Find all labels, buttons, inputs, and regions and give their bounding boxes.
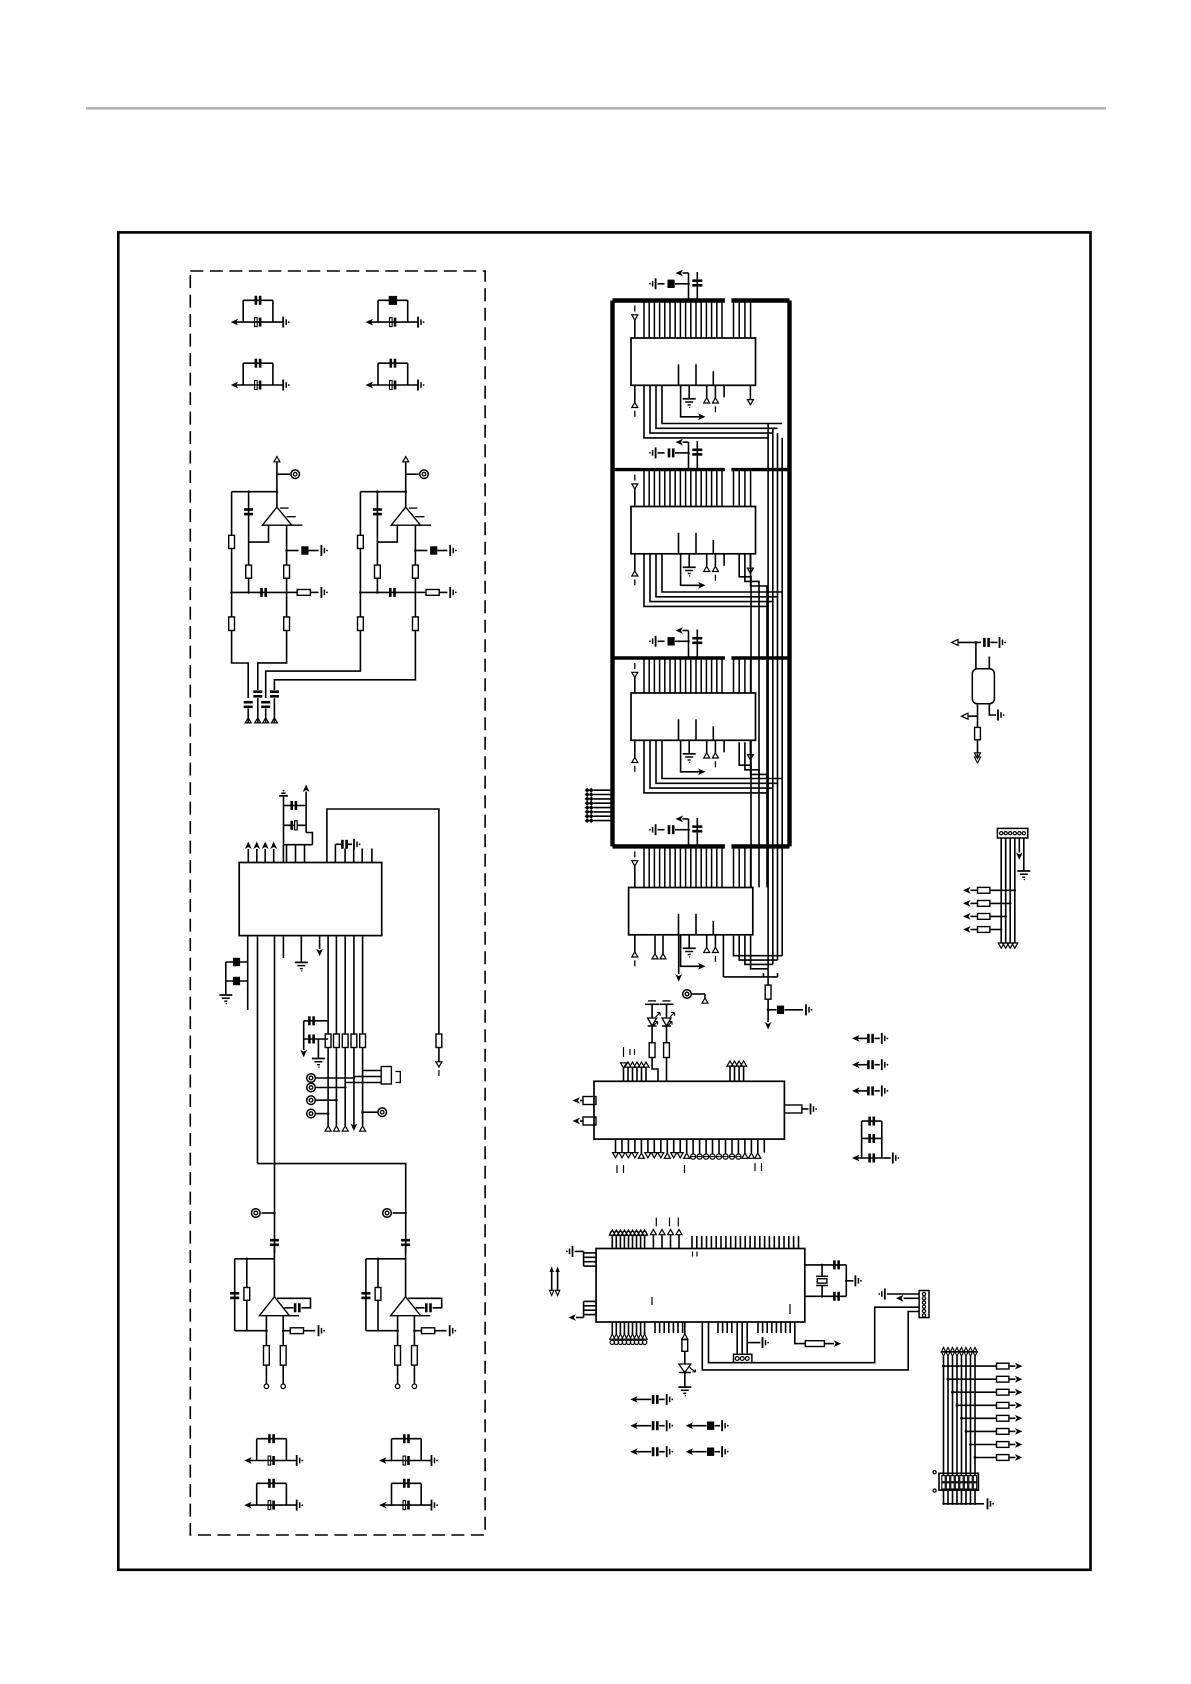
LED D3 bbox=[679, 1364, 691, 1373]
capacitor pair C47/C48 bbox=[379, 1502, 387, 1509]
resistor R2b bbox=[375, 565, 381, 578]
feedback wire bbox=[377, 525, 397, 542]
capacitor C21 bbox=[244, 701, 253, 704]
ESD diodes D1 D2 bbox=[645, 1003, 659, 1005]
U30 top pin group A bbox=[611, 1237, 613, 1249]
stub dashes bbox=[623, 1047, 625, 1057]
bus B stairs between blocks bbox=[739, 554, 751, 778]
DIP bus bbox=[941, 1347, 945, 1352]
resistor R4a bbox=[246, 1259, 248, 1331]
capacitor pair C41/C42 bbox=[244, 1457, 252, 1464]
SDRAM U14 bbox=[629, 888, 753, 935]
op-amp U1 bbox=[262, 507, 291, 525]
wire top rail bbox=[360, 491, 405, 493]
resistor R31 bbox=[682, 1340, 688, 1352]
data bus stair bbox=[644, 740, 768, 793]
resistor R9 bbox=[436, 1034, 442, 1048]
clk out wire bbox=[681, 554, 701, 586]
J4 wires bbox=[1000, 838, 1002, 943]
bias rail with capacitor bbox=[360, 591, 415, 593]
address/data pins bbox=[643, 301, 645, 339]
resistor bbox=[651, 1026, 653, 1043]
resistor R5a bbox=[377, 1259, 379, 1331]
U30 serial bus to J3 bbox=[709, 1307, 920, 1363]
U3 pin stub bbox=[282, 845, 284, 863]
feedback wire bbox=[249, 525, 269, 542]
capacitor pair C1/C2 with ferrite bbox=[231, 319, 239, 326]
wire op-amp outputs to bypass caps bbox=[232, 631, 249, 699]
decoupling network bbox=[655, 447, 657, 458]
data bus stair bbox=[644, 554, 768, 607]
pin1 marks bbox=[678, 914, 680, 935]
capacitor C24 bbox=[270, 690, 279, 693]
U30 left bus stubs 2 bbox=[583, 1301, 585, 1317]
inverted ground bbox=[283, 790, 285, 792]
ground stub wire bbox=[678, 936, 680, 974]
nets bbox=[706, 935, 708, 948]
U30 bottom pin group A bbox=[611, 1322, 613, 1334]
pin1 marks bbox=[678, 364, 680, 385]
op-amp U2 bbox=[391, 507, 420, 525]
ground bbox=[678, 1386, 691, 1388]
capacitor pair C45/C46 bbox=[244, 1502, 252, 1509]
test point TP9 bbox=[393, 1212, 406, 1214]
shielded DRAM bank box bbox=[613, 298, 725, 302]
connector J4 bbox=[997, 828, 1027, 838]
resistor R1d to ground bbox=[287, 591, 298, 593]
feedback capacitor C38 bbox=[277, 1298, 311, 1308]
cap ladder bbox=[304, 1020, 328, 1022]
clk out wire bbox=[681, 740, 701, 772]
LED drive pin bbox=[684, 1322, 686, 1334]
test point TP2 bbox=[406, 473, 419, 475]
B4 lower pins bbox=[692, 993, 705, 995]
SDRAM U11 bbox=[631, 338, 756, 385]
capacitor C50 to ground bbox=[767, 1008, 770, 1011]
resistor R2a bbox=[359, 492, 361, 536]
resistor R1e bbox=[229, 617, 235, 631]
resistor R4d bbox=[280, 1346, 286, 1366]
ground bbox=[300, 936, 302, 963]
wire top rail bbox=[232, 491, 277, 493]
capacitor C22 bbox=[253, 690, 262, 693]
resistor R1c bbox=[284, 565, 290, 578]
resistor R40 bbox=[977, 716, 979, 727]
right bypass caps bbox=[852, 1035, 860, 1042]
pin nets below bbox=[634, 740, 636, 757]
net stub bbox=[634, 475, 636, 481]
resistor R5d bbox=[412, 1346, 418, 1366]
net stub bbox=[634, 663, 636, 669]
capacitor C12a bbox=[376, 492, 378, 542]
series resistors R50-R57 bbox=[942, 1365, 945, 1368]
connector J2 bbox=[734, 1354, 752, 1362]
resistor R32 net bbox=[795, 1322, 806, 1344]
resistor bbox=[666, 1026, 668, 1043]
pin1 marks bbox=[678, 533, 680, 554]
capacitor C12b to ground bbox=[414, 525, 416, 592]
J3 wires bbox=[887, 1293, 919, 1295]
resistor R2d to ground bbox=[415, 591, 426, 593]
pin marks bbox=[692, 1252, 694, 1257]
capacitor stack C60-C62 bbox=[862, 1120, 882, 1122]
op-amp U1 supply net bbox=[274, 457, 280, 462]
jumper J1 bbox=[381, 1067, 391, 1085]
Q1 base net bbox=[977, 704, 979, 716]
test point TP1 bbox=[277, 473, 290, 475]
resistor R4b to ground bbox=[283, 1330, 290, 1332]
resistor R2f bbox=[413, 617, 419, 631]
capacitor C11a bbox=[248, 492, 250, 542]
U30 bottom plain pins bbox=[654, 1322, 656, 1333]
capacitor pair C43/C44 bbox=[379, 1457, 387, 1464]
bottom rail bbox=[235, 1330, 267, 1332]
resistor R5b to ground bbox=[414, 1330, 421, 1332]
capacitor C36 bbox=[234, 1259, 236, 1331]
resistor R2c bbox=[413, 565, 419, 578]
left arrow net bbox=[576, 1317, 584, 1319]
pin nets below bbox=[634, 385, 636, 402]
bus termination below bank bbox=[734, 936, 783, 956]
test point TP7 bbox=[363, 1111, 378, 1113]
feedback capacitor C39 bbox=[408, 1298, 442, 1308]
U30 left bus stubs bbox=[584, 1252, 597, 1254]
SDRAM U12 bbox=[631, 507, 756, 554]
pin arrow bbox=[319, 936, 321, 949]
U3 bottom pins bbox=[257, 936, 259, 1164]
clk out wire bbox=[681, 935, 701, 967]
resistor R1a bbox=[231, 492, 233, 536]
clk out wire bbox=[681, 385, 701, 417]
capacitor C37 bbox=[365, 1259, 367, 1331]
nets bbox=[706, 740, 708, 753]
top rail bbox=[235, 1258, 275, 1260]
U20 top-left pins bbox=[621, 1063, 627, 1068]
ground bbox=[688, 935, 690, 949]
resistor R1f bbox=[284, 617, 290, 631]
net stub bbox=[634, 851, 636, 857]
pin nets below bbox=[634, 554, 636, 571]
wires to IC bbox=[306, 833, 312, 845]
U20 top-right pins bbox=[727, 1061, 733, 1066]
op-amp U2 supply net bbox=[403, 457, 409, 462]
U30 left ground bbox=[572, 1246, 574, 1257]
capacitor pair C5/C6 with ferrite bbox=[231, 382, 239, 389]
stub dashes below bbox=[616, 1165, 618, 1173]
ground bbox=[688, 554, 690, 568]
decoupling network bbox=[655, 824, 657, 835]
test points TP3-TP6 bbox=[316, 1077, 354, 1079]
nets below B4 bbox=[654, 936, 656, 954]
capacitor C35 bbox=[401, 1239, 410, 1242]
nets bbox=[706, 554, 708, 567]
U20 bottom pins bbox=[615, 1139, 617, 1153]
U30 top pin group B bbox=[650, 1230, 656, 1235]
capacitor pair C7/C8 with ferrite bbox=[366, 382, 374, 389]
decoupling network bbox=[655, 278, 657, 289]
address/data pins bbox=[643, 470, 645, 507]
U3 top pins with arrows bbox=[247, 849, 249, 863]
capacitor C11b to ground bbox=[286, 525, 288, 592]
wire to lower op-amps bbox=[258, 1164, 406, 1253]
bus A verticals bbox=[781, 438, 783, 956]
capacitor C25 to ground bbox=[334, 844, 336, 862]
long net wire to pulldown bbox=[327, 809, 439, 1034]
SDRAM U13 bbox=[631, 693, 756, 740]
U30 top pin group C bbox=[691, 1236, 693, 1249]
dashed analog section box bbox=[190, 271, 485, 1535]
ground bbox=[688, 385, 690, 399]
output terminals bbox=[395, 1384, 400, 1389]
ground for J2 bbox=[747, 1342, 760, 1344]
U20 right pin to ground bbox=[784, 1105, 802, 1113]
ground bbox=[688, 740, 690, 754]
ground bbox=[312, 1058, 325, 1060]
decoupling network bbox=[655, 636, 657, 647]
resistor R20 bbox=[767, 969, 769, 985]
schematic outer border bbox=[118, 232, 1090, 1569]
stub dashes bbox=[655, 1218, 657, 1227]
bias rail with capacitor bbox=[232, 591, 287, 593]
net stub bbox=[436, 1062, 442, 1067]
supply filter caps bbox=[284, 805, 307, 807]
strap nets bbox=[551, 1272, 553, 1290]
ground bbox=[219, 994, 232, 996]
pin1 marks bbox=[678, 719, 680, 740]
U20 left port pins bbox=[583, 1097, 596, 1105]
op-amp U4 bbox=[273, 1247, 275, 1297]
data bus stair bbox=[644, 385, 768, 438]
bottom-middle bypass caps bbox=[630, 1396, 638, 1403]
address/data pins bbox=[643, 658, 645, 693]
reset supervisor cap bbox=[952, 639, 959, 645]
supply net arrow bbox=[305, 792, 307, 806]
resistor R5c bbox=[395, 1346, 401, 1366]
resistor R4c bbox=[264, 1346, 270, 1366]
capacitor C23 bbox=[261, 701, 270, 704]
address/data pins bbox=[643, 846, 645, 887]
top rule bbox=[86, 107, 1106, 110]
resistor R1b bbox=[246, 565, 252, 578]
op-amp U5 bbox=[405, 1247, 407, 1297]
transistor Q1 bbox=[975, 642, 977, 668]
U3 signal pins to resistors bbox=[327, 936, 329, 1034]
capacitor C34 bbox=[270, 1239, 279, 1242]
net stub bbox=[634, 306, 636, 312]
nets bbox=[706, 385, 708, 398]
capacitor pair C3/C4 with ferrite bbox=[366, 319, 374, 326]
crystal circuit Y1 bbox=[805, 1264, 847, 1266]
test point TP8 bbox=[261, 1212, 274, 1214]
IC U30 main controller bbox=[596, 1249, 805, 1323]
switch common to ground bbox=[944, 1503, 985, 1505]
U3 left bypass ladder bbox=[247, 936, 249, 1010]
net arrow bbox=[765, 1022, 772, 1030]
U3 top stubs bbox=[344, 849, 346, 863]
memory bus connector arrows bbox=[585, 788, 594, 793]
IC U20 controller bbox=[594, 1081, 784, 1139]
pin nets below bbox=[634, 935, 636, 952]
output terminals bbox=[264, 1384, 269, 1389]
connector J3 bbox=[919, 1291, 929, 1318]
bottom rail bbox=[366, 1330, 398, 1332]
IC U3 audio codec bbox=[239, 863, 382, 936]
pull resistors R41-R44 bbox=[990, 889, 1015, 891]
DIP switch S1 bbox=[939, 1473, 978, 1490]
top rail bbox=[366, 1258, 406, 1260]
Q1 emitter to ground bbox=[989, 704, 996, 715]
output pins bbox=[397, 1316, 399, 1346]
net stub bbox=[245, 718, 251, 723]
output pins bbox=[265, 1316, 267, 1346]
resistor R2e bbox=[358, 617, 364, 631]
